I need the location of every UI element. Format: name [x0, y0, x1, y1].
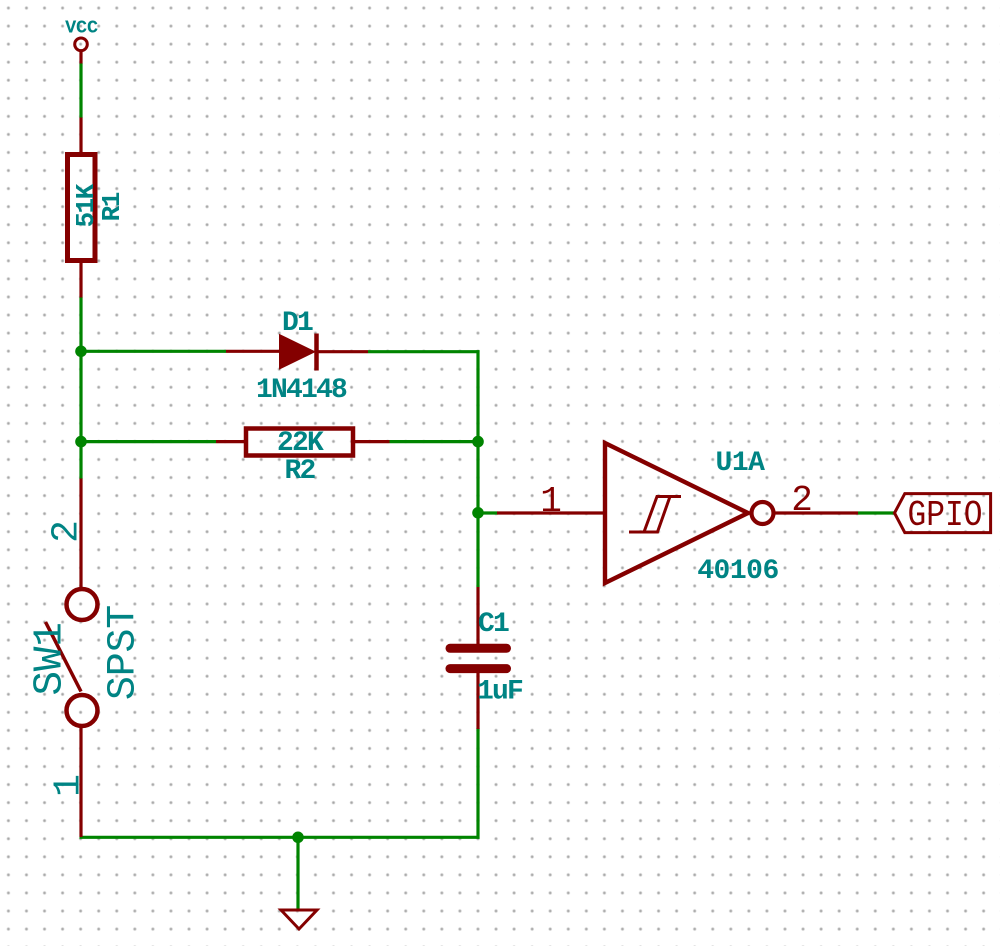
svg-text:40106: 40106 [697, 556, 779, 587]
svg-text:C1: C1 [478, 609, 509, 640]
svg-text:SW1: SW1 [27, 622, 73, 695]
svg-text:GPIO: GPIO [908, 495, 983, 536]
svg-text:1uF: 1uF [477, 677, 523, 708]
svg-text:22K: 22K [277, 428, 324, 459]
svg-text:1: 1 [540, 481, 562, 522]
svg-text:2: 2 [791, 480, 813, 521]
svg-text:1: 1 [48, 774, 91, 797]
svg-text:1N4148: 1N4148 [256, 375, 347, 406]
svg-text:SPST: SPST [102, 605, 147, 700]
svg-text:VCC: VCC [65, 18, 98, 39]
svg-text:R2: R2 [284, 456, 315, 487]
svg-text:2: 2 [46, 520, 89, 543]
svg-text:U1A: U1A [716, 448, 766, 479]
svg-text:R1: R1 [97, 192, 127, 221]
svg-text:D1: D1 [282, 308, 313, 339]
